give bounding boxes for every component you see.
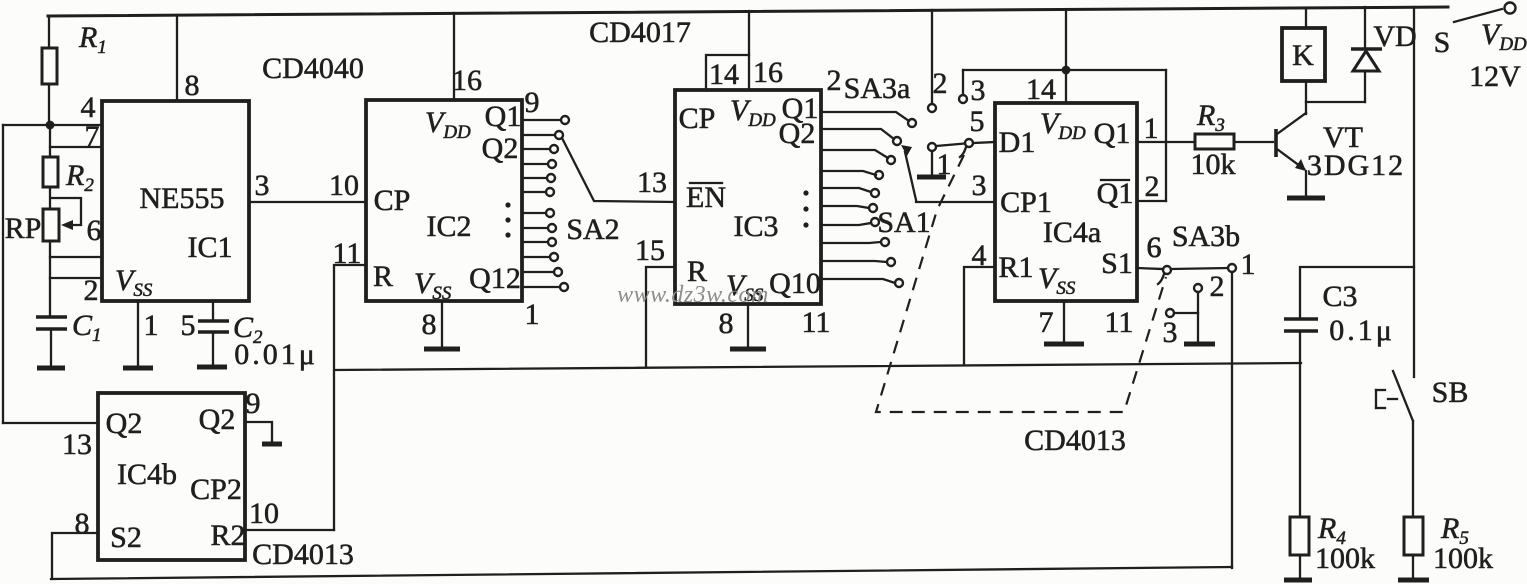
svg-text:IC1: IC1 [188, 231, 233, 264]
svg-text:5: 5 [181, 309, 196, 342]
pushbutton SB [1393, 371, 1413, 421]
switch SA1 wiper arrow [905, 152, 916, 200]
resistor R4 [1290, 517, 1309, 555]
svg-text:IC4a: IC4a [1043, 216, 1101, 249]
switch SA3b throw 1 [1171, 268, 1228, 269]
switch S [1454, 9, 1502, 22]
svg-text:0.1μ: 0.1μ [1329, 314, 1395, 347]
wire pin8 NE555 [176, 15, 178, 101]
switch SA2 wiper [562, 138, 675, 202]
svg-text:3DG12: 3DG12 [1307, 149, 1405, 182]
switch SA1 contacts Q1-Q10 [821, 112, 916, 287]
ground C2 [197, 365, 227, 370]
svg-text:3: 3 [255, 169, 270, 202]
resistor R1 [48, 16, 50, 48]
svg-text:3: 3 [1163, 316, 1178, 349]
svg-text:1: 1 [937, 148, 952, 181]
svg-text:SB: SB [1432, 376, 1469, 409]
svg-text:6: 6 [1147, 231, 1162, 264]
svg-text:IC4b: IC4b [117, 458, 177, 491]
svg-text:1: 1 [1241, 248, 1256, 281]
svg-text:100k: 100k [1315, 542, 1375, 575]
svg-text:Q1: Q1 [1094, 117, 1131, 150]
svg-text:IC2: IC2 [427, 210, 472, 243]
svg-text:Q1: Q1 [485, 100, 522, 133]
switch SA3b pole [1163, 266, 1171, 274]
svg-text:14: 14 [1026, 73, 1056, 106]
svg-text:CP: CP [374, 184, 411, 217]
svg-text:1: 1 [1144, 112, 1159, 145]
wire SA3b-1 to bottom rail [1231, 272, 1233, 568]
op-amp IC1 NE555 box [102, 101, 249, 301]
diode VD [1364, 7, 1366, 49]
wire pin16 IC3 [748, 11, 750, 90]
svg-text:1: 1 [525, 298, 540, 331]
svg-text:11: 11 [1105, 306, 1134, 339]
svg-text:www.dz3w.com: www.dz3w.com [617, 282, 769, 308]
svg-text:16: 16 [753, 56, 783, 89]
svg-text:R1: R1 [998, 251, 1033, 284]
switch SA3a throw 3 [959, 95, 967, 103]
svg-text:0.01μ: 0.01μ [234, 338, 318, 371]
wire right bus to SB [1413, 7, 1415, 377]
counter IC2 CD4040 box [366, 100, 522, 301]
svg-text:IC3: IC3 [734, 210, 779, 243]
svg-text:Q2: Q2 [779, 117, 816, 150]
switch SA3b throw 2 [1194, 284, 1202, 292]
svg-text:10: 10 [249, 497, 279, 530]
wire VDD top rail [48, 7, 1448, 16]
svg-text:SA3b: SA3b [1172, 220, 1240, 253]
svg-text:10: 10 [329, 169, 359, 202]
svg-text:D1: D1 [999, 126, 1036, 159]
svg-text:SA1: SA1 [877, 206, 930, 239]
svg-text:R: R [373, 260, 393, 293]
wire pin8 S2 IC4b [52, 533, 98, 579]
svg-text:Q2: Q2 [199, 403, 236, 436]
counter IC3 CD4017 box [675, 90, 821, 304]
wire pin10 R2 IC4b [245, 529, 334, 531]
ground pin8 IC2 [441, 301, 443, 347]
capacitor C1 [36, 315, 67, 319]
svg-text:10k: 10k [1191, 148, 1236, 181]
ground pin7 IC4a [1063, 301, 1065, 342]
svg-text:2: 2 [1145, 170, 1160, 203]
svg-text:CP2: CP2 [190, 473, 242, 506]
wire R3 to base [1234, 141, 1273, 143]
resistor R5 [1404, 517, 1423, 555]
svg-text:9: 9 [246, 387, 261, 420]
node A junction dot [46, 121, 55, 130]
svg-text:11: 11 [802, 306, 831, 339]
svg-text:S1: S1 [1101, 247, 1133, 280]
svg-text:Q2: Q2 [482, 132, 519, 165]
svg-text:100k: 100k [1433, 542, 1493, 575]
svg-text:1: 1 [144, 309, 159, 342]
svg-text:13: 13 [637, 166, 667, 199]
wire pin2 Q1bar IC4a [1137, 200, 1166, 202]
wire left feedback vertical [2, 125, 4, 423]
svg-text:CD4013: CD4013 [1024, 424, 1126, 457]
wire pin9 IC4b stub [245, 422, 272, 442]
switch SA3a pole D1 [965, 139, 973, 147]
wire pin4 NE555 [3, 124, 102, 126]
svg-text:13: 13 [62, 428, 92, 461]
svg-text:8: 8 [719, 307, 734, 340]
svg-text:CD4040: CD4040 [262, 52, 364, 85]
wire pin16 IC2 [453, 13, 455, 100]
svg-text:6: 6 [87, 214, 102, 247]
svg-text:S2: S2 [110, 521, 142, 554]
wire pin14 IC4a [1065, 10, 1067, 103]
svg-text:SA2: SA2 [566, 213, 619, 246]
svg-text:Q1: Q1 [1097, 177, 1134, 210]
wire collector to diode [1306, 101, 1365, 103]
svg-text:8: 8 [422, 308, 437, 341]
switch SA3a pole from VDD [931, 10, 933, 104]
svg-text:CP: CP [679, 102, 716, 135]
wire toggle feedback [963, 69, 1166, 71]
mechanical linkage dashed [876, 155, 1166, 412]
svg-text:Q12: Q12 [469, 262, 521, 295]
svg-text:3: 3 [972, 169, 987, 202]
wire pin7 NE555 [50, 146, 102, 148]
svg-text:7: 7 [1039, 306, 1054, 339]
svg-text:8: 8 [185, 69, 200, 102]
wire pin1 Q1 IC4a to R3 [1137, 141, 1195, 143]
flip-flop IC4b box [98, 393, 245, 560]
svg-text:EN: EN [686, 181, 726, 214]
ellipsis IC2 outputs [505, 202, 510, 207]
capacitor C2 [212, 301, 214, 321]
svg-text:Q10: Q10 [769, 267, 821, 300]
switch SA3b throw 3 [1166, 309, 1174, 317]
svg-text:NE555: NE555 [140, 182, 225, 215]
transistor VT 3DG12 [1274, 129, 1278, 157]
svg-text:S: S [1434, 26, 1451, 59]
svg-text:14: 14 [709, 58, 739, 91]
resistor R2 [49, 125, 51, 157]
svg-text:8: 8 [75, 507, 90, 540]
wire pin3 to CP [249, 201, 366, 203]
svg-text:CD4017: CD4017 [589, 16, 691, 49]
ground pin8 IC3 [747, 304, 749, 347]
svg-text:3: 3 [971, 74, 986, 107]
ground emitter [1287, 196, 1325, 201]
wire pin2 NE555 [50, 277, 102, 279]
svg-text:R2: R2 [210, 519, 245, 552]
potentiometer RP [43, 209, 59, 241]
svg-text:15: 15 [635, 234, 665, 267]
wire pin4 R1 jog IC4a [964, 267, 995, 365]
relay K [1305, 8, 1307, 28]
wire pin13 IC4b [3, 422, 98, 424]
wire pin15 reset jog IC3 [646, 267, 675, 367]
ground pin1 [123, 366, 153, 371]
switch SA3a throw 1 [928, 143, 936, 151]
svg-text:RP: RP [5, 212, 42, 245]
svg-text:CD4013: CD4013 [252, 538, 354, 571]
capacitor C3 [1300, 267, 1414, 319]
svg-text:7: 7 [85, 120, 100, 153]
svg-text:VD: VD [1373, 20, 1416, 53]
svg-text:SA3a: SA3a [844, 72, 911, 105]
svg-text:C3: C3 [1322, 280, 1357, 313]
svg-text:16: 16 [452, 64, 482, 97]
svg-text:11: 11 [333, 237, 362, 270]
svg-text:CP1: CP1 [1000, 186, 1052, 219]
flip-flop IC4a box [995, 103, 1137, 301]
wire pin6 S1 IC4a [1137, 268, 1163, 269]
wire pin14 loop IC3 [706, 55, 749, 90]
svg-text:9: 9 [525, 86, 540, 119]
wire pin11 IC2 reset jog [334, 265, 366, 530]
svg-text:12V: 12V [1469, 60, 1521, 93]
svg-text:K: K [1292, 39, 1314, 72]
svg-text:2: 2 [933, 67, 948, 100]
svg-text:5: 5 [970, 105, 985, 138]
resistor R3 [1195, 134, 1234, 149]
switch SA2 contacts Q1-Q12 [522, 116, 569, 291]
svg-text:Q2: Q2 [106, 407, 143, 440]
wire CP1 [916, 201, 995, 203]
wire ground bottom rail [51, 567, 1232, 579]
wire reset mid bus [335, 363, 1301, 370]
svg-text:2: 2 [827, 64, 842, 97]
wire pin6 NE555 [50, 256, 102, 258]
svg-text:2: 2 [1210, 270, 1225, 303]
ground C1 [37, 366, 65, 371]
wire pin1 NE555 [137, 301, 139, 366]
ellipsis IC3 outputs [803, 190, 808, 195]
